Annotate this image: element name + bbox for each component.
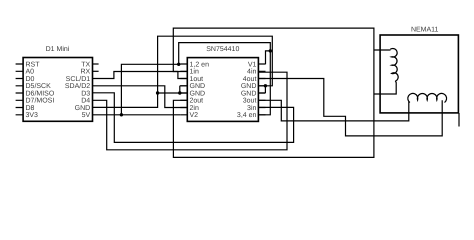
wire SCL/D1 to 1in xyxy=(93,72,188,79)
svg-text:D3: D3 xyxy=(81,90,90,97)
node 5V branch xyxy=(120,113,123,116)
inductor coil A (vertical) xyxy=(390,48,398,81)
node GND row5 left xyxy=(156,91,159,94)
svg-text:GND: GND xyxy=(241,90,257,97)
node GND right xyxy=(264,84,267,87)
svg-text:V2: V2 xyxy=(190,112,199,119)
svg-text:A0: A0 xyxy=(26,69,35,76)
wire SDA/D2 to 2in xyxy=(93,86,188,108)
svg-text:3out: 3out xyxy=(243,98,257,105)
svg-text:RST: RST xyxy=(26,61,41,68)
svg-text:SDA/D2: SDA/D2 xyxy=(65,82,90,90)
wire 5V branch to enables and V1 xyxy=(121,43,270,115)
svg-text:GND: GND xyxy=(75,105,91,112)
svg-text:RX: RX xyxy=(80,69,90,76)
svg-text:D8: D8 xyxy=(26,105,35,112)
pin RX stub xyxy=(93,70,99,72)
D1 Mini box xyxy=(23,58,92,122)
svg-text:TX: TX xyxy=(81,61,90,68)
SN754410 left pin stubs xyxy=(180,64,187,115)
wire coil A bottom lead xyxy=(374,81,396,94)
wire 5V to V2 xyxy=(93,114,181,116)
wire D4 to 4in xyxy=(93,72,288,150)
svg-text:3,4 en: 3,4 en xyxy=(237,112,257,119)
svg-text:D4: D4 xyxy=(81,98,90,105)
svg-text:5V: 5V xyxy=(82,112,91,119)
wire 1out to 2out via top loop xyxy=(173,28,374,157)
NEMA11 box xyxy=(380,35,458,113)
NEMA pin stub xyxy=(458,113,460,127)
svg-text:SN754410: SN754410 xyxy=(206,46,239,53)
svg-text:D5/SCK: D5/SCK xyxy=(26,82,52,90)
SN754410 box xyxy=(187,58,258,122)
svg-text:1in: 1in xyxy=(190,68,199,76)
wire GND net xyxy=(93,36,273,107)
svg-text:2in: 2in xyxy=(190,104,199,112)
node GND jumper left xyxy=(178,91,181,94)
junction dots xyxy=(120,49,272,116)
wire GND row5 left xyxy=(158,86,188,93)
svg-text:V1: V1 xyxy=(248,61,257,68)
wire 4out to coil B right xyxy=(258,79,442,136)
SN754410 right pin stubs xyxy=(258,64,265,115)
node 1,2en xyxy=(177,63,180,66)
node V1 branch xyxy=(269,49,272,52)
D1 Mini left pin stubs xyxy=(16,64,24,115)
svg-text:D7/MOSI: D7/MOSI xyxy=(26,97,55,105)
wire coil A top lead xyxy=(374,49,391,51)
svg-text:3V3: 3V3 xyxy=(26,112,39,119)
svg-text:D0: D0 xyxy=(26,76,35,83)
svg-text:GND: GND xyxy=(241,83,257,90)
svg-text:SCL/D1: SCL/D1 xyxy=(66,75,91,83)
pin TX stub xyxy=(93,63,99,65)
svg-text:NEMA11: NEMA11 xyxy=(411,27,439,34)
svg-text:D1 Mini: D1 Mini xyxy=(46,45,70,53)
svg-text:D6/MISO: D6/MISO xyxy=(26,89,55,97)
svg-text:1,2 en: 1,2 en xyxy=(190,61,210,68)
inductor coil B (horizontal) xyxy=(408,93,447,102)
svg-text:1out: 1out xyxy=(190,76,204,83)
wire 3out to coil B left xyxy=(258,100,408,121)
svg-text:3in: 3in xyxy=(247,104,256,112)
wire GND jumper right xyxy=(258,86,265,93)
svg-text:2out: 2out xyxy=(190,98,204,105)
svg-text:4out: 4out xyxy=(243,76,257,83)
svg-text:GND: GND xyxy=(190,83,206,90)
svg-text:4in: 4in xyxy=(247,68,256,76)
wire D3 to 3in xyxy=(93,93,294,143)
svg-text:GND: GND xyxy=(190,90,206,97)
